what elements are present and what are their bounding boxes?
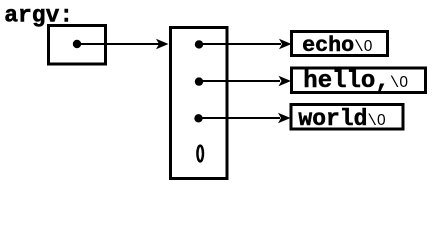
svg-text:world\0: world\0	[298, 106, 386, 132]
box string world	[291, 105, 403, 130]
box argv pointer cell	[49, 26, 106, 65]
svg-text:echo\0: echo\0	[302, 33, 373, 58]
node dot argv	[73, 40, 81, 48]
svg-text:hello,\0: hello,\0	[303, 68, 408, 95]
node dot argv[0]	[195, 40, 203, 48]
arrowhead into world box	[278, 113, 291, 123]
node dot argv[2]	[194, 114, 202, 122]
box argv array	[171, 28, 228, 179]
wire argv[1] to hello	[199, 80, 280, 82]
box string echo	[292, 32, 388, 56]
arrowhead into hello box	[279, 76, 292, 86]
arrowhead into array box	[156, 39, 169, 49]
box string hello	[292, 68, 426, 93]
node dot argv[1]	[195, 77, 203, 85]
wire argv[0] to echo	[199, 43, 281, 45]
label 0 null pointer	[197, 146, 203, 162]
arrowhead into echo box	[279, 39, 292, 49]
wire argv[2] to world	[199, 117, 281, 119]
wire argv to array	[77, 43, 159, 45]
